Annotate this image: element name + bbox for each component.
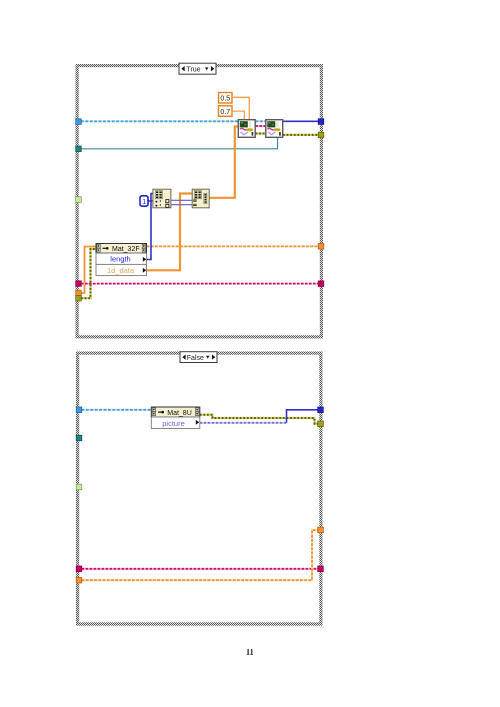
wire: reshaped array from reshape node up into cvt node 1 (orange thick) (209, 127, 238, 198)
tunnel: teal scalar-in (False left) (76, 435, 82, 441)
case structure border (False frame) (76, 352, 323, 626)
wire: error cluster from left tunnel to property node (olive dashed) (81, 249, 96, 298)
case structure border (True frame) (76, 64, 324, 339)
tunnel: olive error-out (False right) (318, 421, 324, 427)
svg-text:length: length (110, 255, 130, 264)
page number 11 (247, 649, 253, 655)
wire: error cluster between cvt nodes (olive dashed) (256, 132, 266, 134)
wire: picture up to blue tunnel (blue) (287, 410, 319, 423)
svg-text:Mat_8U: Mat_8U (167, 410, 192, 417)
wire: orange ref across False case to right tunnel (orange dashed) (82, 530, 318, 580)
cvt node 2 (OpenCV icon node) (266, 120, 283, 138)
svg-text:0.7: 0.7 (220, 109, 230, 116)
cvt node 1 (OpenCV icon node) (238, 120, 255, 138)
wire: magenta string across True case (81, 283, 318, 285)
property node Mat_32F (96, 244, 147, 276)
svg-text:True: True (186, 66, 200, 73)
tunnel: green unwired (True left) (76, 197, 82, 203)
tunnel: cyan image-in (False left) (76, 407, 82, 413)
property node Mat_8U (151, 407, 200, 429)
case selector label "True" (179, 63, 216, 74)
svg-text:False: False (187, 355, 204, 362)
wire: magenta string across False case (82, 568, 318, 570)
wire: teal scalar from left tunnel up into cvt node 2 bottom (81, 138, 278, 149)
svg-text:1: 1 (142, 199, 146, 206)
svg-text:1d_data: 1d_data (107, 266, 135, 275)
svg-text:picture: picture (162, 419, 185, 428)
wire: length value to index node (blue) (147, 194, 153, 260)
tunnel: cyan image-in (True left) (76, 119, 82, 125)
tunnel: blue picture-out (False right) (318, 407, 324, 413)
wire: int array rows between index and reshape nodes (blue-violet) (171, 199, 192, 201)
wire: 1d_data array to reshape node (orange thick) (147, 194, 193, 271)
wire: string between cvt nodes (magenta dashed) (256, 125, 266, 127)
tunnel: olive error-out (True right) (318, 132, 324, 138)
wire: 0.5 constant to cvt node 1 top (orange) (232, 97, 249, 119)
wire: Mat_8U image ref from left tunnel to property node (cyan dashed) (82, 409, 152, 411)
svg-text:0.5: 0.5 (220, 96, 230, 103)
constant 0.5 (orange numeric) (219, 93, 233, 104)
tunnel: orange ref-out (False right) (318, 527, 324, 533)
tunnel: orange ref-in (True left) (76, 290, 82, 296)
tunnel: magenta string-in (True left) (76, 281, 82, 287)
wire: picture out of Mat_8U node (blue-violet dashed) (200, 422, 287, 424)
constant 0.7 (orange numeric) (219, 106, 233, 117)
svg-text:Mat_32F: Mat_32F (112, 246, 140, 253)
wire: Mat_32F ref from property node to right tunnel (orange dashed) (147, 245, 319, 247)
constant 1 (blue I32 numeric) (140, 196, 148, 206)
wire: image ref between cvt nodes (cyan dashed) (256, 120, 266, 122)
tunnel: magenta string-in (False left) (76, 566, 82, 572)
tunnel: olive error-in (True left) (76, 295, 82, 301)
tunnel: magenta string-out (True right) (318, 281, 324, 287)
tunnel: teal scalar-in (True left) (76, 146, 82, 152)
index array node (beige) (153, 189, 171, 208)
tunnel: orange ref-out (True right) (318, 244, 324, 250)
tunnel: blue result-out (True right) (318, 119, 324, 125)
wire: error out of cvt node 2 to right tunnel (olive dashed) (283, 134, 318, 136)
wire: error out of Mat_8U node to right tunnel (olive dashed) (200, 415, 318, 424)
wire: result out of cvt node 2 (blue, to right tunnel) (283, 120, 318, 122)
reshape array node (beige) (192, 189, 209, 208)
tunnel: magenta string-out (False right) (318, 566, 324, 572)
tunnel: orange ref-in (False left) (76, 577, 82, 583)
wire: Mat_8U image ref (cyan dashed, left tunnel to cvt node 1) (81, 120, 238, 122)
tunnel: green unwired (False left) (76, 484, 82, 490)
case selector label "False" (180, 352, 217, 363)
wire: int array rows 2 between index and reshape nodes (blue-violet) (171, 204, 192, 206)
wire: Mat_32F ref from left tunnel to property node (orange) (81, 247, 96, 294)
wire: 0.7 constant to cvt node 1 top (orange) (232, 111, 244, 119)
wire: constant 1 to index node (blue) (148, 200, 153, 202)
